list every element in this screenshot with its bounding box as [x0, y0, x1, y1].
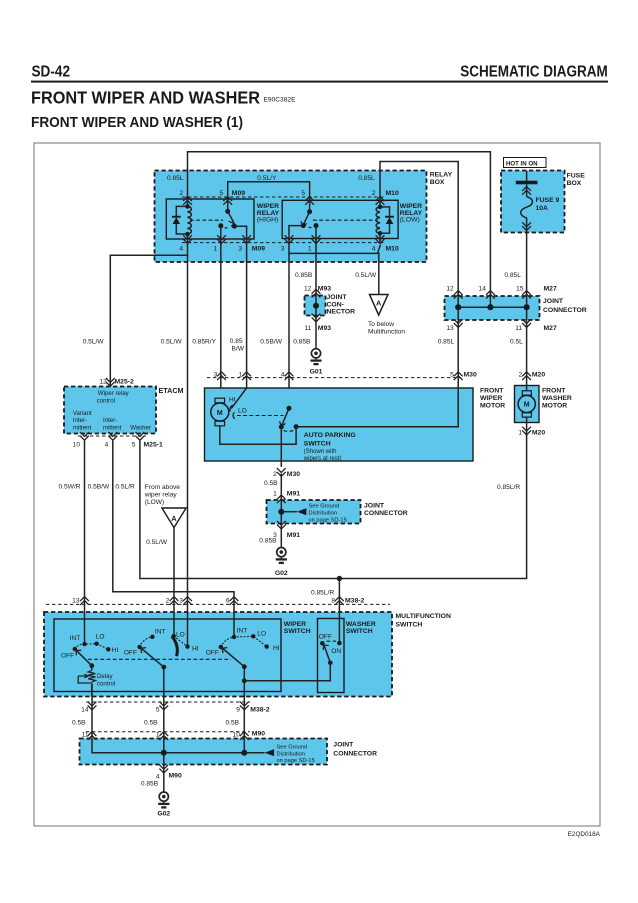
svg-text:0.85L: 0.85L — [438, 339, 455, 346]
svg-text:From above: From above — [145, 484, 181, 491]
svg-text:E2QD018A: E2QD018A — [568, 831, 601, 838]
svg-text:HI: HI — [229, 397, 236, 404]
svg-text:LO: LO — [176, 631, 185, 638]
svg-text:M93: M93 — [318, 285, 331, 292]
svg-text:FUSE 9: FUSE 9 — [536, 197, 560, 204]
svg-text:M: M — [524, 402, 530, 409]
svg-text:M38-2: M38-2 — [250, 707, 269, 714]
svg-text:0.85: 0.85 — [230, 338, 243, 345]
svg-text:HI: HI — [192, 645, 199, 652]
svg-text:0.5B: 0.5B — [72, 719, 86, 726]
svg-text:NECTOR: NECTOR — [327, 309, 356, 316]
svg-text:5: 5 — [450, 372, 454, 379]
svg-text:5: 5 — [132, 442, 136, 449]
svg-text:3: 3 — [281, 246, 285, 253]
svg-text:M25-1: M25-1 — [144, 442, 163, 449]
svg-text:Delay: Delay — [97, 673, 114, 680]
svg-text:13: 13 — [446, 325, 454, 332]
svg-text:Inter-: Inter- — [73, 417, 87, 424]
svg-text:11: 11 — [304, 325, 311, 332]
svg-text:5: 5 — [156, 707, 160, 714]
svg-text:BOX: BOX — [567, 180, 582, 187]
svg-text:JOINT: JOINT — [543, 298, 564, 305]
svg-text:M90: M90 — [252, 731, 265, 738]
svg-text:0.85B: 0.85B — [259, 537, 277, 544]
svg-text:on page SD-15: on page SD-15 — [277, 758, 315, 764]
svg-text:0.5L/W: 0.5L/W — [355, 272, 377, 279]
svg-text:11: 11 — [515, 325, 522, 332]
svg-text:1: 1 — [239, 372, 243, 379]
svg-text:M91: M91 — [287, 491, 300, 498]
svg-text:(Shown with: (Shown with — [304, 449, 337, 455]
svg-text:0.85L: 0.85L — [358, 175, 375, 182]
svg-text:3: 3 — [238, 246, 242, 253]
svg-text:A: A — [171, 514, 177, 523]
svg-text:M: M — [217, 410, 223, 417]
svg-text:M38-2: M38-2 — [345, 598, 364, 605]
svg-text:12: 12 — [446, 285, 454, 292]
svg-text:INT: INT — [155, 629, 166, 636]
svg-text:See Ground: See Ground — [309, 504, 340, 510]
svg-text:9: 9 — [236, 707, 240, 714]
svg-text:G02: G02 — [157, 811, 170, 818]
svg-text:MULTIFUNCTION: MULTIFUNCTION — [396, 613, 451, 620]
svg-text:0.85L: 0.85L — [504, 272, 521, 279]
svg-text:0.5B: 0.5B — [226, 719, 240, 726]
svg-text:A: A — [376, 299, 382, 308]
svg-text:Distribution: Distribution — [277, 751, 305, 757]
svg-text:1: 1 — [308, 246, 312, 253]
svg-text:wipers at rest): wipers at rest) — [303, 456, 342, 462]
svg-text:M09: M09 — [232, 190, 245, 197]
svg-text:wiper relay: wiper relay — [144, 492, 178, 499]
svg-text:2: 2 — [273, 471, 277, 478]
svg-text:HI: HI — [273, 645, 280, 652]
svg-text:10: 10 — [73, 442, 81, 449]
svg-text:LO: LO — [96, 633, 105, 640]
svg-text:4: 4 — [105, 442, 109, 449]
svg-text:M20: M20 — [532, 430, 545, 437]
svg-text:M10: M10 — [386, 246, 399, 253]
svg-text:0.5B: 0.5B — [144, 719, 158, 726]
svg-text:8: 8 — [331, 598, 335, 605]
svg-text:(LOW): (LOW) — [400, 217, 420, 224]
svg-text:5: 5 — [301, 190, 305, 197]
svg-text:M10: M10 — [386, 190, 399, 197]
svg-text:WASHER: WASHER — [346, 621, 376, 628]
svg-text:WASHER: WASHER — [542, 395, 572, 402]
svg-text:M27: M27 — [544, 325, 557, 332]
svg-text:control: control — [97, 681, 115, 688]
svg-text:ETACM: ETACM — [159, 386, 184, 395]
svg-text:2: 2 — [519, 372, 523, 379]
svg-text:M27: M27 — [544, 285, 557, 292]
svg-text:2: 2 — [372, 190, 376, 197]
svg-text:CONNECTOR: CONNECTOR — [364, 510, 408, 517]
svg-text:G01: G01 — [310, 369, 323, 376]
svg-text:G02: G02 — [275, 570, 288, 577]
svg-text:control: control — [97, 397, 115, 404]
svg-text:4: 4 — [281, 372, 285, 379]
svg-text:0.5B/W: 0.5B/W — [88, 483, 110, 490]
svg-text:OFF: OFF — [319, 633, 332, 640]
svg-text:E90C382E: E90C382E — [264, 96, 296, 103]
svg-text:FRONT WIPER AND WASHER: FRONT WIPER AND WASHER — [31, 88, 260, 108]
svg-text:12: 12 — [304, 285, 312, 292]
svg-text:JOINT: JOINT — [364, 503, 385, 510]
svg-text:2: 2 — [166, 598, 170, 605]
svg-text:BOX: BOX — [430, 179, 445, 186]
svg-text:0.85B: 0.85B — [295, 272, 313, 279]
svg-text:(LOW): (LOW) — [145, 499, 164, 506]
svg-text:WIPER: WIPER — [284, 621, 306, 628]
svg-text:JOINT: JOINT — [327, 294, 348, 301]
svg-text:Inter-: Inter- — [103, 417, 117, 424]
svg-text:0.5L/Y: 0.5L/Y — [257, 175, 277, 182]
svg-text:mittent: mittent — [103, 425, 122, 432]
svg-text:0.5L/R: 0.5L/R — [115, 483, 135, 490]
svg-text:5: 5 — [220, 190, 224, 197]
svg-text:LO: LO — [257, 630, 266, 637]
svg-text:M25-2: M25-2 — [115, 379, 134, 386]
svg-text:M93: M93 — [318, 325, 331, 332]
svg-text:1: 1 — [213, 246, 217, 253]
svg-text:JOINT: JOINT — [333, 742, 354, 749]
svg-text:0.85B: 0.85B — [141, 781, 159, 788]
svg-text:CONNECTOR: CONNECTOR — [333, 751, 377, 758]
svg-text:SD-42: SD-42 — [32, 64, 71, 81]
svg-text:OFF: OFF — [206, 649, 219, 656]
svg-text:12: 12 — [99, 379, 107, 386]
svg-text:M09: M09 — [252, 246, 265, 253]
svg-text:RELAY: RELAY — [430, 171, 453, 178]
svg-text:14: 14 — [479, 285, 487, 292]
svg-text:14: 14 — [81, 707, 89, 714]
svg-text:1: 1 — [156, 732, 160, 739]
svg-text:M91: M91 — [287, 532, 300, 539]
svg-text:0.5W/R: 0.5W/R — [59, 483, 81, 490]
svg-text:Distribution: Distribution — [309, 511, 337, 517]
svg-text:0.5L/W: 0.5L/W — [83, 339, 105, 346]
svg-text:1: 1 — [273, 491, 277, 498]
svg-text:FRONT: FRONT — [542, 387, 566, 394]
svg-text:ON: ON — [331, 648, 341, 655]
svg-text:0.5B/W: 0.5B/W — [260, 339, 282, 346]
svg-text:11: 11 — [82, 732, 89, 739]
svg-text:4: 4 — [179, 246, 183, 253]
svg-text:M90: M90 — [169, 773, 182, 780]
svg-text:FUSE: FUSE — [567, 172, 586, 179]
svg-text:SWITCH: SWITCH — [304, 440, 331, 447]
svg-text:1: 1 — [519, 430, 523, 437]
svg-text:Washer: Washer — [130, 425, 151, 432]
svg-text:0.85B: 0.85B — [293, 339, 311, 346]
svg-text:M30: M30 — [464, 372, 477, 379]
svg-text:SWITCH: SWITCH — [396, 622, 423, 629]
svg-text:0.85R/Y: 0.85R/Y — [192, 339, 216, 346]
svg-text:0.85L/R: 0.85L/R — [311, 590, 334, 597]
svg-text:Multifunction: Multifunction — [368, 328, 405, 335]
svg-text:MOTOR: MOTOR — [542, 402, 567, 409]
svg-text:To below: To below — [368, 321, 394, 328]
svg-text:(HIGH): (HIGH) — [257, 217, 279, 224]
svg-text:0.5L/W: 0.5L/W — [146, 539, 168, 546]
svg-text:B/W: B/W — [232, 345, 245, 352]
svg-text:SWITCH: SWITCH — [284, 628, 311, 635]
svg-text:10A: 10A — [536, 205, 549, 212]
svg-text:LO: LO — [238, 408, 247, 415]
svg-text:15: 15 — [516, 285, 524, 292]
svg-text:on page SD-15: on page SD-15 — [309, 517, 347, 523]
svg-text:3: 3 — [214, 372, 218, 379]
svg-text:M20: M20 — [532, 372, 545, 379]
svg-text:10: 10 — [233, 732, 241, 739]
svg-text:13: 13 — [72, 598, 80, 605]
svg-text:SCHEMATIC DIAGRAM: SCHEMATIC DIAGRAM — [460, 64, 608, 81]
svg-text:mittent: mittent — [73, 425, 92, 432]
svg-text:HOT IN ON: HOT IN ON — [506, 160, 537, 167]
svg-text:INT: INT — [237, 628, 248, 635]
svg-text:AUTO PARKING: AUTO PARKING — [304, 432, 356, 439]
svg-text:4: 4 — [372, 246, 376, 253]
svg-text:OFF: OFF — [61, 652, 74, 659]
svg-text:6: 6 — [226, 598, 230, 605]
svg-text:0.85L/R: 0.85L/R — [497, 484, 520, 491]
svg-text:Wiper relay: Wiper relay — [98, 390, 130, 397]
svg-text:CONNECTOR: CONNECTOR — [543, 307, 587, 314]
svg-text:CON-: CON- — [327, 301, 344, 308]
svg-text:WIPER: WIPER — [480, 395, 502, 402]
svg-text:SWITCH: SWITCH — [346, 628, 373, 635]
svg-text:FRONT WIPER AND WASHER (1): FRONT WIPER AND WASHER (1) — [31, 114, 243, 131]
svg-text:0.5L: 0.5L — [510, 339, 523, 346]
svg-text:3: 3 — [179, 598, 183, 605]
svg-text:0.85L: 0.85L — [167, 175, 184, 182]
svg-text:0.5B: 0.5B — [264, 480, 278, 487]
svg-text:4: 4 — [156, 774, 160, 781]
svg-text:M30: M30 — [287, 471, 300, 478]
svg-text:OFF: OFF — [124, 649, 137, 656]
svg-text:See Ground: See Ground — [277, 745, 308, 751]
svg-text:INT: INT — [70, 635, 81, 642]
svg-text:MOTOR: MOTOR — [480, 402, 505, 409]
svg-text:2: 2 — [179, 190, 183, 197]
svg-text:0.5L/W: 0.5L/W — [161, 339, 183, 346]
svg-text:HI: HI — [112, 647, 119, 654]
svg-text:Variant: Variant — [73, 410, 92, 417]
svg-text:FRONT: FRONT — [480, 387, 504, 394]
